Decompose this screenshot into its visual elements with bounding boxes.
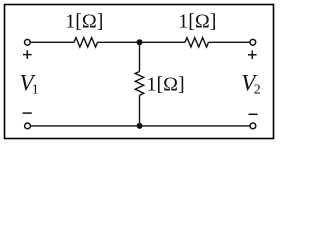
svg-text:1[Ω]: 1[Ω] (147, 73, 185, 95)
svg-text:2: 2 (254, 82, 261, 97)
svg-text:1[Ω]: 1[Ω] (178, 11, 216, 33)
svg-text:1: 1 (32, 82, 39, 97)
svg-text:1[Ω]: 1[Ω] (65, 11, 103, 33)
